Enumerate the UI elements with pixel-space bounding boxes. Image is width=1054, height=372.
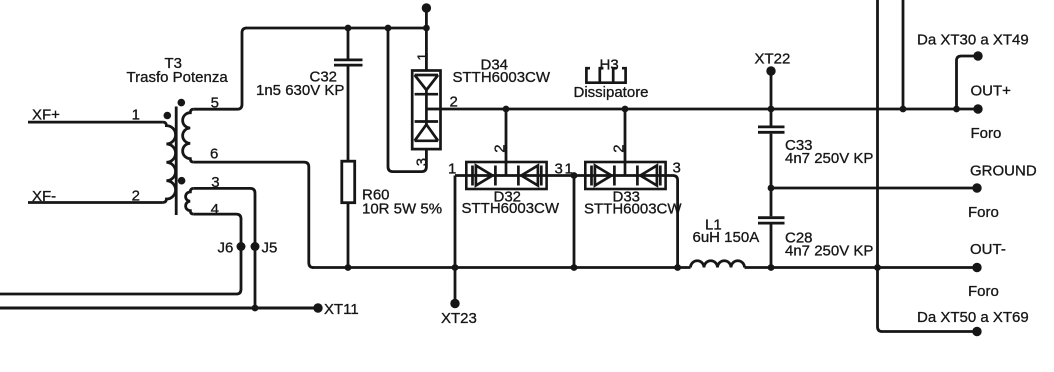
svg-text:3: 3 bbox=[555, 161, 563, 178]
junction dot top wire C32 bbox=[345, 25, 352, 32]
capacitor C33 plates bbox=[758, 127, 785, 132]
svg-text:STTH6003CW: STTH6003CW bbox=[453, 69, 551, 86]
junction dot OUT+ rail D32 bbox=[503, 106, 510, 113]
wire OUT+ rail from D34 pin 2 bbox=[441, 108, 979, 111]
terminal dot XT23 bbox=[450, 299, 459, 308]
wire stub to top terminal bbox=[425, 8, 428, 28]
wire vertical bus to Da XT50 terminal bbox=[878, 0, 978, 332]
svg-text:5: 5 bbox=[211, 95, 219, 112]
wire top node horizontal bbox=[246, 27, 427, 30]
diode D34 package outline bbox=[412, 71, 440, 150]
terminal dot Da XT50 bbox=[972, 327, 981, 336]
wire pin 4 down through J6 and left to edge bbox=[0, 214, 241, 294]
junction dot GROUND C33 C28 bbox=[768, 185, 775, 192]
jumper J5 dot bbox=[251, 242, 260, 251]
svg-text:STTH6003CW: STTH6003CW bbox=[462, 200, 560, 217]
wire vertical bus to OUT+ rail bbox=[902, 0, 905, 109]
inductor L1 bbox=[691, 261, 745, 268]
diode D34 pin 2 tap bbox=[426, 108, 440, 111]
capacitor C33 top lead bbox=[770, 109, 773, 126]
svg-text:J5: J5 bbox=[262, 240, 278, 257]
diode D32 pin 2 lead bbox=[505, 109, 508, 163]
junction dot OUT+ rail bus bbox=[900, 106, 907, 113]
junction dot OUT+ rail XT30 bbox=[953, 106, 960, 113]
capacitor C28 plates bbox=[758, 218, 785, 223]
wire pin 3 down through J5 to XT11 bbox=[194, 188, 255, 308]
svg-text:2: 2 bbox=[492, 144, 509, 152]
wire pin 5 up to top node bbox=[194, 28, 247, 109]
polarity dot primary bbox=[164, 112, 172, 120]
junction dot bottom rail bus bbox=[874, 264, 881, 271]
svg-text:Trasfo Potenza: Trasfo Potenza bbox=[127, 69, 229, 86]
junction dot bottom rail XT23 bbox=[452, 264, 459, 271]
diode D34 center line bbox=[425, 90, 428, 125]
svg-text:Da XT30 a XT49: Da XT30 a XT49 bbox=[917, 32, 1029, 49]
svg-text:OUT-: OUT- bbox=[970, 241, 1006, 258]
junction dot bottom rail D33 pin3 bbox=[674, 264, 681, 271]
junction dot top wire D34 bbox=[423, 25, 430, 32]
terminal dot XT11 bbox=[313, 303, 322, 312]
transformer secondary winding pins 3-4 bbox=[186, 188, 194, 214]
svg-text:Da XT50 a XT69: Da XT50 a XT69 bbox=[917, 309, 1029, 326]
capacitor C33 bottom lead bbox=[770, 134, 773, 188]
svg-text:Foro: Foro bbox=[971, 125, 1002, 142]
wire bottom rail right of L1 (OUT-) bbox=[745, 266, 978, 269]
wire XT23 stub bbox=[454, 268, 457, 304]
wire XF+ to transformer pin 1 bbox=[28, 121, 163, 124]
transformer T3 core bbox=[175, 107, 178, 216]
svg-text:XT22: XT22 bbox=[755, 51, 791, 68]
svg-text:4n7 250V KP: 4n7 250V KP bbox=[785, 243, 873, 260]
wire parallel branch to D34 pin 3 bbox=[388, 28, 426, 172]
transformer T3 primary winding bbox=[163, 122, 176, 202]
junction dot OUT+ rail C33 bbox=[768, 106, 775, 113]
wire XT22 stub bbox=[770, 71, 773, 109]
svg-text:3: 3 bbox=[673, 160, 681, 177]
resistor R60 body bbox=[342, 161, 355, 203]
diode D32 pin 1 lead and wire down bbox=[455, 176, 466, 268]
svg-text:1: 1 bbox=[448, 160, 456, 177]
heatsink H3 symbol bbox=[585, 68, 627, 83]
junction dot OUT+ rail D33 bbox=[622, 106, 629, 113]
diode D33 package outline bbox=[585, 162, 665, 189]
svg-text:3: 3 bbox=[414, 158, 431, 166]
terminal dot OUT+ bbox=[973, 104, 982, 113]
diode D34 internal top diode bbox=[415, 75, 439, 94]
svg-text:XF-: XF- bbox=[32, 188, 56, 205]
diode D33 pin 3 lead and wire down bbox=[666, 176, 678, 268]
wire pin 6 down to bottom rail bbox=[194, 162, 314, 267]
svg-text:1: 1 bbox=[565, 161, 573, 178]
terminal dot Da XT30 bbox=[973, 51, 982, 60]
junction dot bottom rail 574 bbox=[571, 264, 578, 271]
diode D34 pin 1 lead bbox=[425, 28, 428, 71]
junction dot D32 D33 node bbox=[571, 172, 578, 179]
terminal dot XT22 bbox=[766, 66, 775, 75]
diode D32 internals bbox=[466, 163, 546, 186]
svg-text:XT23: XT23 bbox=[441, 310, 477, 327]
svg-text:4: 4 bbox=[211, 201, 219, 218]
junction dot XT11 line bbox=[252, 305, 259, 312]
polarity dot secondary top bbox=[178, 99, 186, 107]
polarity dot secondary bottom bbox=[178, 177, 186, 185]
svg-text:OUT+: OUT+ bbox=[971, 83, 1012, 100]
wire D32 pin 3 to D33 pin 1 bbox=[547, 174, 586, 177]
junction dot top wire branch bbox=[385, 25, 392, 32]
wire junction down to bottom rail bbox=[573, 176, 576, 268]
svg-text:6: 6 bbox=[210, 146, 218, 163]
capacitor C28 top lead bbox=[770, 188, 773, 216]
diode D34 internal bottom diode bbox=[415, 122, 439, 141]
junction dot bottom rail C28 bbox=[768, 264, 775, 271]
svg-text:2: 2 bbox=[611, 144, 628, 152]
capacitor C32 plates bbox=[334, 60, 363, 65]
svg-text:4n7 250V KP: 4n7 250V KP bbox=[785, 150, 873, 167]
terminal dot OUT- bbox=[972, 263, 981, 272]
wire Da XT30 terminal to OUT+ rail bbox=[957, 56, 979, 109]
svg-text:2: 2 bbox=[450, 94, 458, 111]
svg-text:J6: J6 bbox=[218, 240, 234, 257]
svg-text:STTH6003CW: STTH6003CW bbox=[584, 200, 682, 217]
terminal dot GROUND bbox=[972, 183, 981, 192]
svg-text:1n5 630V KP: 1n5 630V KP bbox=[256, 82, 344, 99]
transformer secondary winding pins 5-6 bbox=[183, 109, 194, 162]
svg-text:Foro: Foro bbox=[968, 204, 999, 221]
capacitor C32 top lead bbox=[347, 28, 350, 59]
wire bottom rail left of L1 bbox=[312, 266, 690, 269]
diode D33 internals bbox=[585, 163, 665, 186]
capacitor C32 bottom lead bbox=[347, 66, 350, 161]
wire GROUND rail bbox=[771, 187, 977, 190]
capacitor C28 bottom lead bbox=[770, 225, 773, 268]
junction dot bottom rail R60 bbox=[345, 264, 352, 271]
svg-text:GROUND: GROUND bbox=[970, 163, 1037, 180]
svg-text:6uH 150A: 6uH 150A bbox=[693, 229, 760, 246]
wire XT11 horizontal bbox=[0, 307, 318, 310]
svg-text:Dissipatore: Dissipatore bbox=[574, 84, 649, 101]
svg-text:XF+: XF+ bbox=[32, 106, 60, 123]
svg-text:1: 1 bbox=[132, 106, 140, 123]
svg-text:Foro: Foro bbox=[968, 283, 999, 300]
svg-text:1: 1 bbox=[415, 52, 432, 60]
diode D32 package outline bbox=[466, 162, 546, 189]
svg-text:3: 3 bbox=[211, 174, 219, 191]
diode D33 pin 2 lead bbox=[624, 109, 627, 163]
svg-text:2: 2 bbox=[132, 187, 140, 204]
jumper J6 dot bbox=[237, 242, 246, 251]
terminal dot top bbox=[422, 3, 431, 12]
svg-text:10R 5W 5%: 10R 5W 5% bbox=[362, 201, 442, 218]
wire XF- to transformer pin 2 bbox=[28, 201, 163, 204]
resistor R60 bottom lead bbox=[347, 203, 350, 268]
svg-text:XT11: XT11 bbox=[324, 301, 359, 318]
svg-text:H3: H3 bbox=[600, 56, 619, 73]
